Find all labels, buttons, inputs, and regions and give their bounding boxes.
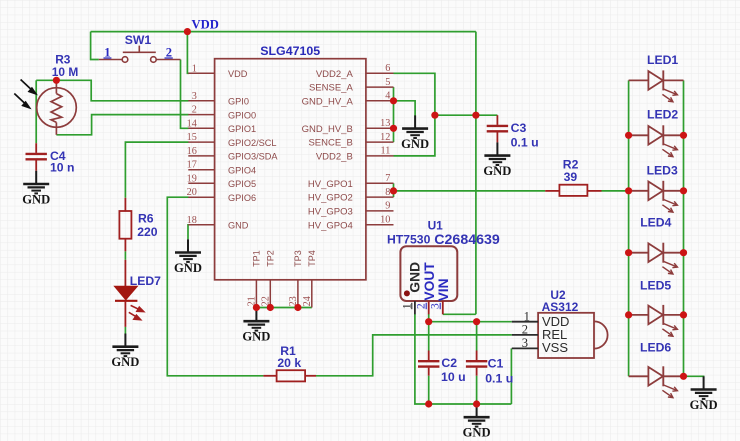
svg-text:TP2: TP2 <box>266 250 276 267</box>
svg-text:VDD2_B: VDD2_B <box>316 152 353 163</box>
IC pin 23 TP3 <box>297 280 299 308</box>
wire IC pin18 GND to ground <box>187 225 190 240</box>
wire C1 top from VOUT rail <box>476 322 478 351</box>
svg-text:6: 6 <box>385 63 390 74</box>
svg-text:GND: GND <box>228 221 249 231</box>
svg-text:7: 7 <box>385 173 390 184</box>
light arrow 1 into R3 <box>21 80 36 94</box>
wire long VDD vertical to VIN <box>475 32 477 315</box>
photoresistor R3 <box>37 80 77 135</box>
light arrow 2 into R3 <box>14 94 29 108</box>
svg-text:17: 17 <box>187 160 197 171</box>
ground below C4 <box>23 171 49 194</box>
svg-text:TP1: TP1 <box>252 250 262 267</box>
wire U1 VOUT down to rail <box>428 314 430 351</box>
junction dot VDD rail <box>184 28 191 35</box>
ground below C3 <box>484 142 510 165</box>
wire VDD dot down to IC pin1 <box>187 32 189 74</box>
svg-text:AS312: AS312 <box>542 300 579 314</box>
svg-text:10: 10 <box>380 215 390 226</box>
svg-text:GND: GND <box>111 355 139 369</box>
svg-text:14: 14 <box>187 118 197 129</box>
ground at pin4 GND_HV_A <box>402 115 428 138</box>
U2 pin 1 VDD <box>512 321 538 323</box>
wire U1 VIN to VDD vertical <box>443 313 476 315</box>
svg-text:2: 2 <box>522 323 528 337</box>
LED LED2 <box>629 125 684 145</box>
junction dot HV_GPO1/2 <box>390 187 397 194</box>
svg-text:C2: C2 <box>441 356 457 370</box>
junction dots LED rails <box>625 132 632 139</box>
LED7 <box>124 260 126 287</box>
svg-text:TP4: TP4 <box>307 250 317 267</box>
svg-text:GND: GND <box>174 261 202 275</box>
wire U1 pin1 GND down to ground rail <box>415 314 512 404</box>
svg-text:220: 220 <box>137 225 158 239</box>
IC SLG47105 body <box>215 59 366 280</box>
U1 pin 3 stub <box>442 301 444 314</box>
svg-text:HV_GPO2: HV_GPO2 <box>308 193 353 204</box>
junction dot pin13 <box>390 125 397 132</box>
resistor R2 <box>545 190 559 192</box>
svg-text:HV_GPO3: HV_GPO3 <box>308 207 353 218</box>
IC pin 16 GPIO3/SDA <box>188 155 214 157</box>
ground below LED7 <box>112 334 138 357</box>
U2 pin 3 VSS <box>512 347 538 349</box>
IC pin 5 SENSE_A <box>366 86 394 88</box>
svg-text:LED2: LED2 <box>647 108 678 122</box>
wire IC pin20 GPIO6 down-around to R1 <box>167 197 263 376</box>
capacitor C1 <box>476 351 478 361</box>
wire C2 bottom <box>428 376 430 404</box>
wire LED bank to GND <box>684 376 704 377</box>
junction dots ground rail <box>425 400 432 407</box>
svg-text:12: 12 <box>380 132 390 143</box>
svg-text:2: 2 <box>192 105 197 116</box>
svg-text:8: 8 <box>385 187 390 198</box>
svg-text:GND: GND <box>407 262 422 293</box>
svg-text:13: 13 <box>380 118 390 129</box>
IC pin 7 HV_GPO1 <box>366 182 394 184</box>
IC pin 24 TP4 <box>311 280 313 308</box>
U1 pin1 marker <box>404 290 410 296</box>
svg-text:GND_HV_A: GND_HV_A <box>302 96 354 107</box>
IC pin 2 GPIO0 <box>188 114 214 116</box>
svg-text:GND: GND <box>242 330 270 344</box>
IC pin 11 VDD2_B <box>366 155 394 157</box>
U1 pin 1 stub <box>414 301 416 314</box>
ground at IC pin18 <box>175 239 201 262</box>
svg-text:VDD2_A: VDD2_A <box>316 69 354 80</box>
svg-text:10 u: 10 u <box>441 370 466 384</box>
svg-text:C3: C3 <box>511 121 527 135</box>
svg-text:SW1: SW1 <box>125 33 152 47</box>
svg-text:LED1: LED1 <box>647 53 678 67</box>
svg-text:GND: GND <box>401 137 429 151</box>
wire IC pin7-pin8 tie vertical <box>393 183 395 197</box>
svg-text:GND: GND <box>690 398 718 412</box>
wire pin4 GND_HV_A to ground symbol <box>394 101 416 116</box>
svg-text:GPIO5: GPIO5 <box>228 179 256 189</box>
svg-text:HV_GPO1: HV_GPO1 <box>308 179 353 190</box>
svg-text:20 k: 20 k <box>277 356 301 370</box>
svg-text:24: 24 <box>302 296 313 306</box>
junction dots VOUT rail <box>425 318 432 325</box>
svg-text:LED5: LED5 <box>640 279 671 293</box>
IC pin 1 VDD <box>188 72 214 74</box>
wire VDD top rail <box>91 31 476 33</box>
IC pin 4 GND_HV_A <box>366 100 394 102</box>
IC pin 15 GPIO2/SCL <box>188 141 214 143</box>
wire IC pin15 GPIO2 to R6 <box>125 142 188 198</box>
svg-text:R6: R6 <box>138 212 154 226</box>
svg-text:LED6: LED6 <box>640 341 671 355</box>
svg-text:10 n: 10 n <box>50 161 74 175</box>
svg-text:15: 15 <box>187 132 197 143</box>
wire R2 to LED bank left rail <box>602 190 629 192</box>
wire U2 REL to R1 <box>316 335 512 376</box>
ground at LED bank <box>691 376 717 399</box>
svg-text:18: 18 <box>187 215 197 226</box>
resistor R6 <box>124 198 126 211</box>
svg-text:GND_HV_B: GND_HV_B <box>302 124 353 135</box>
wire VOUT rail to U2 VDD <box>429 321 512 323</box>
svg-text:GPIO1: GPIO1 <box>228 124 256 134</box>
IC pin 21 TP1 <box>255 280 257 308</box>
svg-text:4: 4 <box>385 91 390 102</box>
LED LED3 <box>629 181 684 201</box>
svg-text:TP3: TP3 <box>293 250 303 267</box>
svg-text:VDD: VDD <box>192 18 219 32</box>
wire LED7 cathode green segment <box>124 327 126 334</box>
U2 pin 2 REL <box>512 334 538 336</box>
svg-text:VDD: VDD <box>228 69 248 79</box>
svg-text:GPIO6: GPIO6 <box>228 193 256 203</box>
LED LED4 <box>629 243 684 263</box>
wire IC pin5 SENSE_A to pin12 SENCE_B vertical <box>393 87 395 142</box>
svg-text:3: 3 <box>522 336 528 350</box>
junction dot VDD vertical at C3 branch <box>472 112 479 119</box>
svg-text:SENSE_A: SENSE_A <box>309 83 353 94</box>
junction dot pin4 <box>390 97 397 104</box>
IC pin 13 GND_HV_B <box>366 127 394 129</box>
svg-text:GPIO0: GPIO0 <box>228 110 256 120</box>
IC pin 17 GPIO4 <box>188 169 214 171</box>
LED LED6 <box>629 366 684 386</box>
svg-text:GPIO4: GPIO4 <box>228 165 256 175</box>
wire C1 bottom <box>476 376 478 404</box>
svg-text:0.1 u: 0.1 u <box>511 135 539 149</box>
wire VDD branch to C3 <box>435 114 498 116</box>
svg-text:1: 1 <box>524 309 530 323</box>
svg-text:11: 11 <box>380 146 390 157</box>
IC pin 14 GPIO1 <box>188 127 214 129</box>
IC pin 18 GND <box>188 224 214 226</box>
IC pin 22 TP2 <box>269 280 271 308</box>
wire R3 top to IC pin3 GPI0 <box>36 80 188 101</box>
svg-text:GPI0: GPI0 <box>228 97 249 107</box>
wire SW1 pin2 to IC pin14 GPIO1 <box>181 60 189 129</box>
junction dot R3 top <box>53 77 60 84</box>
PIR sensor U2 AS312 body <box>538 313 594 358</box>
wire LED bank left rail <box>628 80 630 376</box>
svg-text:HV_GPO4: HV_GPO4 <box>308 220 353 231</box>
svg-text:C1: C1 <box>488 357 504 371</box>
svg-text:20: 20 <box>187 187 197 198</box>
wire R3 left down to C4 <box>35 80 37 143</box>
junction dots TP rail <box>253 304 260 311</box>
svg-text:SENCE_B: SENCE_B <box>308 138 352 149</box>
junction dot VDD2 branch <box>431 112 438 119</box>
voltage regulator U1 HT7530 body <box>400 246 457 301</box>
ground below C1/C2 rail <box>464 404 490 427</box>
svg-text:LED3: LED3 <box>647 164 678 178</box>
wire pin6 VDD2_A to pin11 VDD2_B <box>394 73 435 156</box>
svg-text:LED4: LED4 <box>640 215 671 229</box>
svg-text:GND: GND <box>22 192 50 206</box>
LED7 light arrows <box>129 305 144 319</box>
svg-text:VOUT: VOUT <box>422 262 437 301</box>
svg-text:SLG47105: SLG47105 <box>260 44 320 58</box>
svg-text:19: 19 <box>187 173 197 184</box>
capacitor C3 <box>496 115 498 125</box>
svg-text:VSS: VSS <box>542 340 568 355</box>
IC pin 6 VDD2_A <box>366 72 394 74</box>
LED LED1 <box>629 70 684 90</box>
wire HV_GPO1/2 to R2 <box>394 190 546 192</box>
capacitor C4 <box>35 143 37 153</box>
wire U2 VSS down to ground rail <box>510 348 512 404</box>
wire TP ground rail <box>256 307 311 309</box>
svg-text:GND: GND <box>463 426 491 440</box>
svg-text:0.1 u: 0.1 u <box>485 371 513 385</box>
IC pin 10 HV_GPO4 <box>366 224 394 226</box>
wire VDD rail down to SW1 pin1 <box>91 32 99 60</box>
svg-text:3: 3 <box>192 91 197 102</box>
svg-text:16: 16 <box>187 146 197 157</box>
IC pin 19 GPIO5 <box>188 182 214 184</box>
capacitor C2 <box>428 351 430 361</box>
resistor R1 <box>263 375 276 377</box>
LED LED5 <box>629 305 684 325</box>
wire LED bank right rail <box>683 80 685 376</box>
ground at TP pins <box>243 308 269 331</box>
svg-text:HT7530: HT7530 <box>387 233 431 247</box>
svg-text:VIN: VIN <box>436 278 451 301</box>
IC pin 12 SENCE_B <box>366 141 394 143</box>
svg-text:5: 5 <box>385 77 390 88</box>
IC pin 8 HV_GPO2 <box>366 196 394 198</box>
U1 pin 2 stub <box>428 301 430 314</box>
svg-text:9: 9 <box>385 201 390 212</box>
switch SW1 <box>99 46 181 63</box>
IC pin 3 GPI0 <box>188 100 214 102</box>
svg-text:GPIO3/SDA: GPIO3/SDA <box>228 152 278 162</box>
svg-text:GND: GND <box>483 164 511 178</box>
svg-text:39: 39 <box>564 170 578 184</box>
svg-text:U1: U1 <box>428 218 444 232</box>
svg-text:GPIO2/SCL: GPIO2/SCL <box>228 138 277 148</box>
svg-text:1: 1 <box>192 63 197 74</box>
IC pin 20 GPIO6 <box>188 196 214 198</box>
wire R3 bottom to IC pin2 GPIO0 <box>56 115 188 135</box>
U2 lens bump <box>594 321 608 348</box>
IC pin 9 HV_GPO3 <box>366 210 394 212</box>
wire R6 to LED7 green segment <box>124 251 126 259</box>
